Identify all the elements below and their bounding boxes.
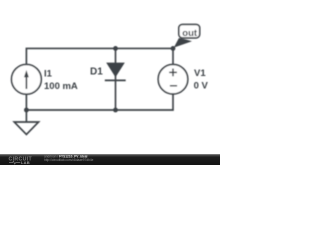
svg-text:out: out [182, 28, 198, 39]
svg-text:V1: V1 [194, 68, 206, 79]
node out flag [174, 24, 200, 47]
wire middle vertical diode branch [115, 48, 117, 110]
svg-text:D1: D1 [90, 67, 103, 78]
watermark bar [0, 154, 220, 165]
voltage source V1 [158, 64, 188, 94]
svg-text:I1: I1 [44, 68, 53, 79]
junction top-right node out [171, 46, 176, 51]
svg-text:100 mA: 100 mA [44, 81, 78, 92]
svg-text:LAB: LAB [21, 160, 30, 165]
current source I1 [12, 64, 42, 94]
wire bottom horizontal net with verticals [26, 94, 173, 110]
junction bottom-left [24, 108, 29, 113]
junction bottom-mid [113, 108, 118, 113]
diode D1 [105, 63, 126, 81]
svg-text:http://circuitlab.com/c8daae97: http://circuitlab.com/c8daae97db4e [44, 158, 94, 162]
watermark logo CIRCUIT [9, 156, 33, 165]
wire top horizontal net with verticals [26, 48, 173, 65]
svg-text:0 V: 0 V [194, 80, 209, 91]
ground [14, 110, 38, 134]
junction top-mid [113, 46, 118, 51]
